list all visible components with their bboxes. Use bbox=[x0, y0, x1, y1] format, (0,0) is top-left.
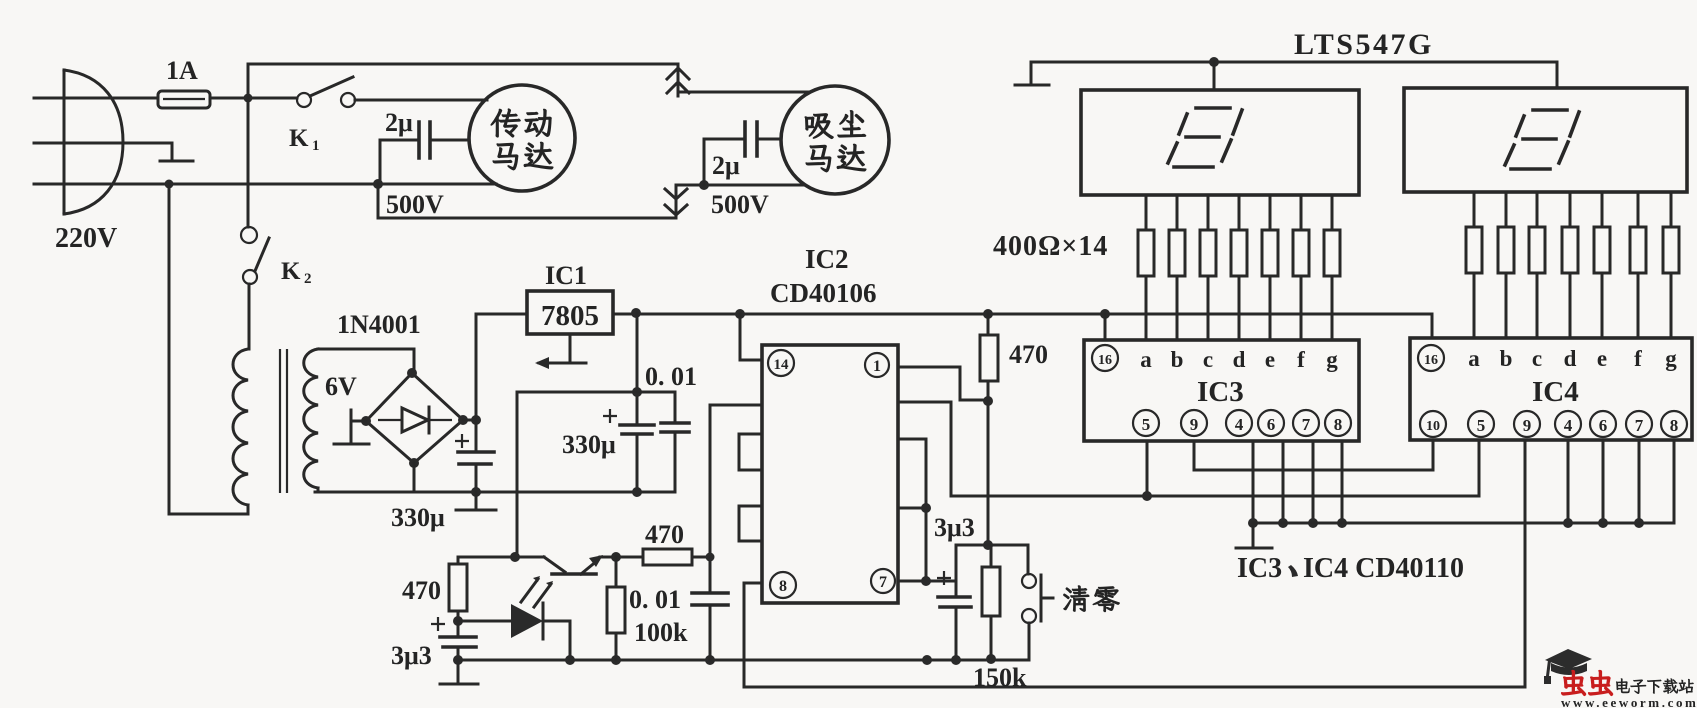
node junction bottom rail x169 bbox=[165, 180, 174, 189]
svg-text:8: 8 bbox=[1670, 416, 1679, 435]
node junction x476 y492 bbox=[471, 487, 481, 497]
node junction x476 y420 bbox=[471, 415, 481, 425]
capacitor C2 2u motor2 bbox=[704, 122, 781, 156]
LED D2 bbox=[458, 603, 570, 660]
svg-text:f: f bbox=[1634, 346, 1642, 371]
wire y392 bbox=[517, 391, 675, 394]
resistor R2 100k bbox=[607, 557, 625, 660]
wires IC3 pins 4,6,7,8 down bbox=[1253, 441, 1342, 523]
svg-text:IC4 CD40110: IC4 CD40110 bbox=[1303, 553, 1464, 584]
svg-text:2μ: 2μ bbox=[385, 108, 413, 137]
wire motor M2 bottom bbox=[676, 185, 805, 186]
bottom pins IC3 bbox=[1133, 410, 1351, 436]
capacitor C5 0.01 bbox=[661, 392, 689, 492]
pin 8 circle bbox=[770, 572, 796, 598]
pin 7 circle bbox=[871, 569, 895, 593]
svg-text:4: 4 bbox=[1235, 415, 1244, 434]
svg-text:c: c bbox=[1203, 347, 1213, 372]
capacitor C7 0.01 bbox=[692, 405, 728, 660]
svg-text:2: 2 bbox=[304, 271, 312, 287]
fuse F1 bbox=[158, 91, 210, 108]
display DS2 bbox=[1404, 88, 1687, 192]
svg-text:9: 9 bbox=[1523, 416, 1532, 435]
svg-text:5: 5 bbox=[1477, 416, 1486, 435]
svg-text:IC4: IC4 bbox=[1532, 376, 1579, 408]
IC2 CD40106 bbox=[739, 345, 898, 603]
svg-text:a: a bbox=[1468, 346, 1480, 371]
wire x517 down to phototransistor bbox=[516, 392, 519, 557]
motor M2 vacuum motor bbox=[781, 86, 889, 194]
svg-text:b: b bbox=[1500, 346, 1513, 371]
wire C7 top to IC2 bbox=[710, 404, 762, 407]
wire C2 down bbox=[703, 139, 706, 185]
node junction x248 top bbox=[244, 94, 253, 103]
wire x988 down to node bbox=[987, 401, 990, 545]
svg-text:3μ3: 3μ3 bbox=[391, 641, 432, 670]
node junction x991 y658 bbox=[986, 654, 996, 664]
svg-text:7805: 7805 bbox=[541, 300, 599, 332]
wire fuse to junction bbox=[210, 97, 297, 100]
node junction x637 y392 bbox=[632, 387, 642, 397]
svg-text:150k: 150k bbox=[973, 663, 1027, 692]
wires IC4 pins down to y523 bbox=[1568, 441, 1674, 523]
wire 500V loop M1 bbox=[378, 184, 676, 218]
node junction x710 bbox=[705, 655, 715, 665]
wire vertical x248 bbox=[247, 64, 250, 227]
node junction x570 bbox=[565, 655, 575, 665]
node junction x378 rail bbox=[373, 179, 383, 189]
svg-text:f: f bbox=[1297, 347, 1305, 372]
wire bridge right to x476 bbox=[463, 419, 476, 422]
node junction x740 bbox=[735, 309, 745, 319]
ground y523 bbox=[1236, 523, 1272, 548]
svg-text:6: 6 bbox=[1267, 415, 1276, 434]
svg-text:7: 7 bbox=[1302, 415, 1311, 434]
svg-text:e: e bbox=[1597, 346, 1607, 371]
node junction x956 y660 bbox=[951, 655, 961, 665]
svg-text:6: 6 bbox=[1599, 416, 1608, 435]
node junction x704 bbox=[699, 180, 709, 190]
svg-text:www.eeworm.com: www.eeworm.com bbox=[1561, 695, 1697, 708]
node junction x926 y508 bbox=[921, 503, 931, 513]
phototransistor Q1 bbox=[458, 552, 643, 574]
svg-text:470: 470 bbox=[402, 576, 441, 605]
svg-text:500V: 500V bbox=[386, 190, 444, 219]
resistor R3 470 horizontal bbox=[643, 549, 710, 565]
counter IC4 bbox=[1410, 338, 1692, 440]
top rail LTS547G bbox=[1031, 61, 1557, 64]
wire pin1 out bbox=[898, 367, 988, 400]
node junction x1214 bbox=[1209, 57, 1219, 67]
svg-text:LTS547G: LTS547G bbox=[1294, 28, 1434, 61]
wire 7805 input bbox=[476, 314, 527, 420]
wire pin7 out bbox=[898, 580, 955, 583]
pin 16 IC4 bbox=[1418, 345, 1444, 371]
svg-text:9: 9 bbox=[1190, 415, 1199, 434]
wire +5V rail bbox=[613, 314, 1432, 338]
regulator IC1 7805 bbox=[527, 291, 613, 334]
wire secondary bottom to bridge bbox=[317, 488, 320, 492]
watermark site name bbox=[1616, 679, 1693, 694]
node junctions y523 IC3 bbox=[1248, 518, 1258, 528]
wire node y545 bbox=[956, 544, 1028, 547]
node junction x616 bbox=[611, 655, 621, 665]
pin letters IC3 bbox=[1140, 347, 1338, 372]
svg-text:IC1: IC1 bbox=[545, 261, 587, 290]
switch K2 bbox=[241, 227, 269, 284]
connector arrows up bbox=[667, 64, 689, 96]
wire pin8 to bottom rail bbox=[744, 441, 1525, 687]
node junction x988 y401 bbox=[983, 396, 993, 406]
capacitor C1 2u motor1 bbox=[380, 122, 469, 158]
wire to display2 bbox=[1556, 62, 1559, 88]
svg-text:330μ: 330μ bbox=[562, 430, 616, 459]
svg-text:470: 470 bbox=[645, 520, 684, 549]
wire C1 down to rail bbox=[379, 140, 382, 184]
plug P1 220V bbox=[64, 70, 123, 214]
svg-text:6V: 6V bbox=[325, 372, 357, 401]
wire IC2 right y402 bbox=[898, 402, 951, 496]
capacitor C3 330u bbox=[455, 420, 494, 492]
svg-text:CD40106: CD40106 bbox=[770, 278, 877, 308]
node junction x458 y621 bbox=[453, 616, 463, 626]
display DS1 bbox=[1081, 90, 1359, 195]
pin 1 circle bbox=[865, 353, 889, 377]
switch K1 bbox=[297, 77, 355, 107]
node junction x637 y492 bbox=[632, 487, 642, 497]
node junction x710 y557 bbox=[706, 553, 715, 562]
svg-text:IC2: IC2 bbox=[805, 244, 849, 274]
node junction x636 bbox=[631, 308, 641, 318]
node junction x1105 bbox=[1100, 309, 1110, 319]
svg-text:g: g bbox=[1326, 347, 1338, 372]
svg-text:7: 7 bbox=[879, 574, 887, 591]
svg-text:5: 5 bbox=[1142, 415, 1151, 434]
svg-text:16: 16 bbox=[1424, 353, 1438, 368]
wire IC2 right y508 bbox=[898, 507, 926, 510]
wire y496 run to IC4 pin5 bbox=[951, 441, 1479, 496]
svg-text:220V: 220V bbox=[55, 223, 117, 254]
node junction x1147 y496 bbox=[1142, 491, 1152, 501]
svg-text:0. 01: 0. 01 bbox=[645, 362, 697, 391]
pin 16 IC3 bbox=[1092, 345, 1118, 371]
digit DS1 bbox=[1168, 108, 1242, 167]
svg-text:1: 1 bbox=[873, 358, 881, 375]
wire connector to motor M2 bbox=[678, 91, 810, 94]
svg-text:16: 16 bbox=[1098, 353, 1112, 368]
counter IC3 bbox=[1084, 340, 1359, 441]
bottom pins IC4 bbox=[1420, 411, 1687, 437]
wire K2 to transformer primary bbox=[248, 284, 251, 349]
svg-text:d: d bbox=[1564, 346, 1577, 371]
capacitor C4 330u filter bbox=[603, 313, 654, 492]
wire secondary top to bridge bbox=[318, 349, 414, 373]
node junction x616 y557 bbox=[611, 552, 621, 562]
svg-text:K: K bbox=[289, 125, 309, 152]
wire K1 to motor M1 bbox=[355, 99, 487, 102]
resistor bank RN1 bbox=[1138, 195, 1340, 340]
svg-text:400Ω×14: 400Ω×14 bbox=[993, 231, 1108, 262]
wire return to transformer bbox=[169, 184, 248, 514]
pin letters IC4 bbox=[1468, 346, 1677, 371]
label motor M1 text bbox=[491, 109, 553, 170]
watermark cap icon bbox=[1544, 649, 1592, 684]
svg-text:2μ: 2μ bbox=[712, 151, 740, 180]
digit DS2 bbox=[1505, 110, 1579, 169]
motor M1 drive motor bbox=[469, 85, 575, 191]
svg-text:10: 10 bbox=[1426, 419, 1440, 434]
wire IC3 pin9 to IC4 pin10 bbox=[1194, 441, 1433, 470]
resistor R4 470 bbox=[980, 314, 998, 401]
capacitor C6 3u3 bbox=[431, 617, 476, 660]
ground tick below C3 bbox=[456, 492, 496, 510]
node junction x988 bbox=[983, 309, 993, 319]
pin 14 circle bbox=[768, 350, 794, 376]
wire E prong / bottom rail bbox=[34, 183, 496, 186]
wire N prong bbox=[34, 142, 122, 145]
ground of 7805 bbox=[539, 334, 586, 363]
watermark chongchong red bbox=[1562, 671, 1613, 696]
ground below C6 bbox=[440, 660, 478, 684]
svg-text:500V: 500V bbox=[711, 190, 769, 219]
svg-text:3μ3: 3μ3 bbox=[934, 513, 975, 542]
svg-text:8: 8 bbox=[1334, 415, 1343, 434]
transformer core bbox=[280, 349, 287, 493]
label motor M2 text bbox=[805, 111, 866, 172]
wire top rail to connector bbox=[248, 63, 678, 66]
svg-text:e: e bbox=[1265, 347, 1275, 372]
node junction x926 y581 bbox=[921, 576, 931, 586]
resistor R5 150k bbox=[982, 545, 1000, 658]
wire y523 bus bbox=[1253, 522, 1674, 525]
wire DC minus rail bbox=[315, 491, 675, 494]
svg-text:0. 01: 0. 01 bbox=[629, 585, 681, 614]
node junction x988 y545 bbox=[983, 540, 993, 550]
svg-text:330μ: 330μ bbox=[391, 503, 445, 532]
wire to display1 bbox=[1213, 62, 1216, 90]
svg-text:14: 14 bbox=[774, 357, 790, 373]
svg-text:g: g bbox=[1665, 346, 1677, 371]
svg-text:a: a bbox=[1140, 347, 1152, 372]
connector arrows down bbox=[665, 189, 687, 215]
svg-text:470: 470 bbox=[1009, 340, 1048, 369]
wire IC2 right y439 bbox=[898, 439, 926, 581]
svg-text:7: 7 bbox=[1635, 416, 1644, 435]
svg-text:c: c bbox=[1532, 346, 1542, 371]
bridge rectifier D1 1N4001 bbox=[361, 368, 468, 468]
pushbutton S1 clear bbox=[1022, 545, 1053, 660]
svg-text:d: d bbox=[1233, 347, 1246, 372]
label qingling bbox=[1064, 586, 1120, 612]
svg-text:100k: 100k bbox=[634, 618, 688, 647]
bridge left vertex terminal tick bbox=[334, 410, 369, 444]
svg-text:b: b bbox=[1171, 347, 1184, 372]
bottom rail y660 bbox=[458, 659, 1028, 662]
wire bridge bottom to rail bbox=[413, 463, 416, 492]
svg-text:1: 1 bbox=[312, 138, 320, 154]
svg-text:1N4001: 1N4001 bbox=[337, 310, 421, 339]
transformer T1 secondary winding 6V bbox=[304, 349, 318, 488]
wire pin14 to +5V bbox=[740, 314, 762, 360]
svg-text:4: 4 bbox=[1564, 416, 1573, 435]
light arrows bbox=[521, 579, 551, 607]
svg-text:K: K bbox=[281, 258, 301, 285]
neutral stub terminal bbox=[122, 143, 193, 161]
wire IC3 pin16 bbox=[1104, 314, 1107, 340]
transformer T1 primary winding bbox=[233, 349, 248, 505]
rail end tick bbox=[1015, 62, 1049, 85]
capacitor C8 3u3 bbox=[937, 545, 971, 660]
wire L prong to fuse bbox=[34, 97, 158, 100]
node junctions y523 IC4 bbox=[1563, 518, 1573, 528]
svg-text:IC3: IC3 bbox=[1237, 553, 1282, 584]
svg-text:1A: 1A bbox=[166, 56, 198, 85]
resistor bank RN2 bbox=[1466, 192, 1679, 338]
wire IC3 pin5 down bbox=[1146, 441, 1149, 496]
svg-text:8: 8 bbox=[779, 578, 787, 595]
node junction x927 y660 bbox=[922, 655, 932, 665]
svg-text:IC3: IC3 bbox=[1197, 376, 1244, 408]
resistor R1 470 left bbox=[449, 557, 467, 621]
node junction x458 y660 bbox=[453, 655, 463, 665]
